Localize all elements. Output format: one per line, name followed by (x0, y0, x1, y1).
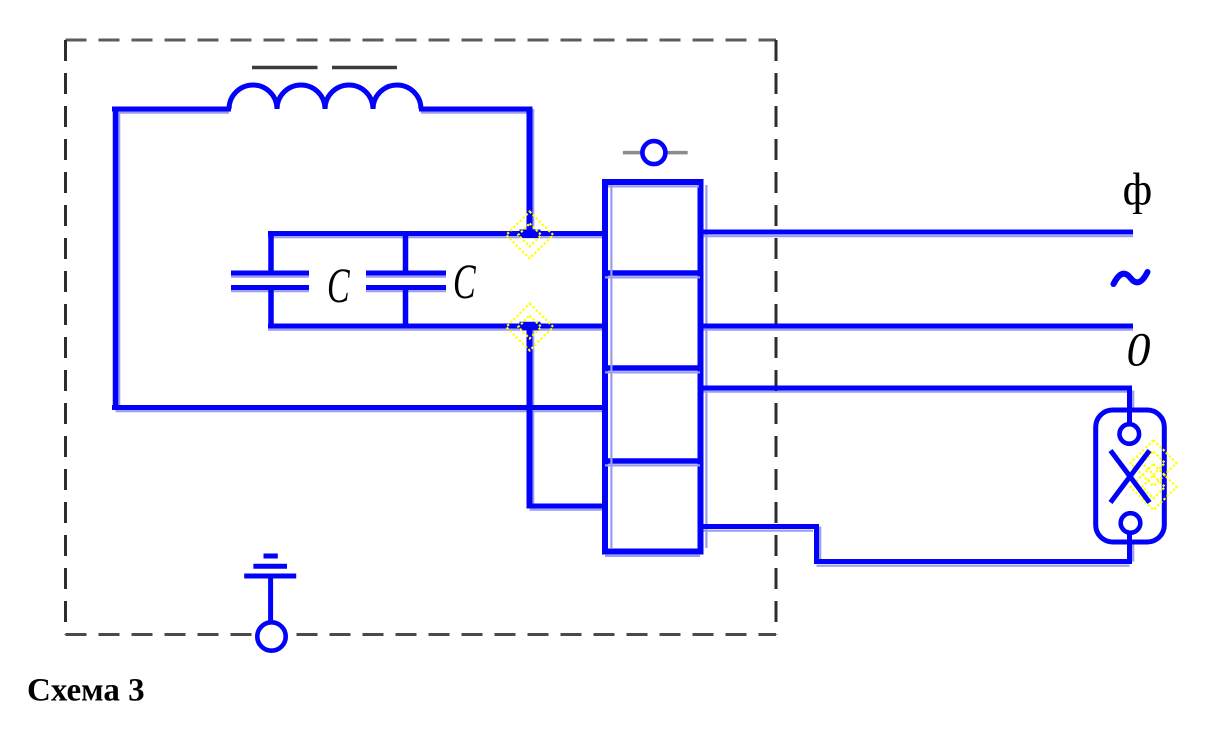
wire right vertical upper (527, 107, 533, 237)
wire inductor right lead (419, 107, 532, 112)
capacitor C1 plates (231, 271, 309, 276)
wire left vertical (113, 107, 119, 411)
wire lamp top feed (700, 388, 1130, 412)
node junction bar bottom (520, 322, 541, 331)
wire lamp bottom feed (700, 527, 1130, 562)
enclosure dashed border left (64, 40, 67, 635)
terminal block divider 3 (602, 458, 703, 464)
node junction bar top (520, 230, 541, 239)
svg-text:C: C (453, 255, 476, 310)
svg-text:Схема 3: Схема 3 (27, 673, 145, 709)
inductor core dash 2 (332, 66, 397, 70)
capacitor C1 top lead (268, 231, 274, 271)
enclosure dashed border right (775, 40, 778, 635)
capacitor C2 top lead (403, 231, 409, 271)
wire phase output (700, 230, 1133, 235)
lamp cross stroke 1 (1111, 451, 1150, 503)
wire inductor left lead (112, 107, 231, 112)
ground symbol bar middle (253, 564, 287, 569)
terminal block divider 2 (602, 365, 703, 371)
wire neutral output (700, 324, 1133, 329)
ground symbol bar small (264, 554, 278, 559)
junction marker diamond at node A (506, 212, 553, 259)
ground symbol bar wide (244, 574, 296, 579)
enclosure dashed border bottom (66, 633, 777, 636)
indicator gray line (623, 151, 688, 155)
lamp top electrode stub (1127, 408, 1132, 426)
wire bottom horizontal to terminal block (112, 405, 604, 410)
capacitor C2 plates (366, 271, 446, 276)
lamp bottom electrode circle (1121, 513, 1141, 533)
terminal block divider 1 (602, 270, 703, 276)
lamp envelope (1096, 410, 1165, 542)
junction marker diamonds at lamp (1131, 440, 1177, 510)
capacitor C2 bottom lead (403, 290, 409, 328)
junction marker diamond at node B (506, 304, 553, 351)
terminal block outline (605, 182, 701, 552)
wire to terminal block cell 4 (527, 504, 605, 509)
label AC tilde (1114, 272, 1148, 284)
svg-text:0: 0 (1127, 324, 1151, 377)
capacitor C1 bottom lead (268, 290, 274, 328)
wire right vertical lower (527, 326, 533, 509)
lamp top electrode circle (1120, 424, 1140, 444)
svg-text:C: C (327, 259, 350, 314)
wire capacitor loop bottom (268, 324, 604, 329)
wire capacitor loop top (268, 231, 604, 236)
indicator circle above terminal block (642, 141, 665, 164)
inductor L (229, 85, 421, 109)
enclosure dashed border top (66, 39, 777, 42)
ground terminal circle (257, 622, 285, 650)
svg-text:ф: ф (1123, 164, 1153, 215)
lamp bottom electrode stub (1127, 533, 1132, 545)
inductor core dash 1 (252, 66, 318, 70)
ground stem (268, 576, 273, 624)
lamp cross stroke 2 (1111, 451, 1150, 503)
